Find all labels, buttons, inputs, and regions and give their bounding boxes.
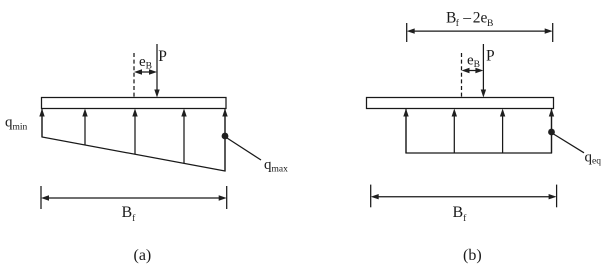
dimension arrow B_f (b) (374, 196, 554, 198)
svg-text:(a): (a) (134, 247, 152, 264)
q_max marker dot (a) (222, 133, 229, 140)
footing bar (a) (42, 98, 227, 109)
soil pressure trapezoid (a) (42, 109, 225, 172)
eccentricity arrow e_B (b) (465, 70, 481, 72)
load P arrow (b) (482, 44, 484, 90)
svg-text:qeq: qeq (585, 150, 602, 167)
svg-text:Bf: Bf (122, 204, 137, 224)
eccentricity arrow e_B (a) (137, 71, 154, 73)
svg-text:Bf–2eB: Bf–2eB (446, 10, 493, 29)
dimension ticks B_f - 2e_B (b) (406, 23, 408, 42)
dimension arrow B_f (a) (44, 197, 224, 199)
pressure arrow 1 (a) (41, 112, 43, 137)
svg-text:eB: eB (139, 54, 152, 72)
svg-text:qmin: qmin (5, 115, 28, 133)
dimension ticks B_f (a) (40, 186, 42, 209)
pressure arrow 1 (b) (405, 112, 407, 153)
svg-text:eB: eB (467, 53, 480, 71)
svg-text:P: P (158, 48, 167, 65)
svg-text:P: P (486, 48, 495, 65)
uniform pressure block (b) (406, 109, 552, 154)
q_eq marker dot (b) (548, 129, 555, 136)
svg-text:(b): (b) (463, 247, 482, 264)
dimension arrow B_f - 2e_B (b) (410, 30, 550, 32)
pressure arrow 4 (a) (183, 112, 185, 163)
centerline dashed (a) (133, 53, 135, 98)
q_eq leader line (b) (554, 134, 585, 153)
pressure arrow 5 (a) (224, 112, 226, 171)
pressure arrow 2 (a) (84, 112, 86, 145)
svg-text:Bf: Bf (453, 204, 468, 224)
pressure arrow 2 (b) (453, 112, 455, 153)
pressure arrow 3 (b) (502, 112, 504, 153)
pressure arrow 3 (a) (134, 112, 136, 154)
svg-text:qmax: qmax (264, 157, 288, 175)
q_max leader line (a) (227, 138, 261, 160)
pressure arrow 4 (b) (551, 112, 553, 153)
dimension ticks B_f (b) (370, 185, 372, 208)
load P arrow (a) (156, 44, 158, 90)
centerline dashed (b) (461, 53, 463, 98)
footing bar (b) (367, 98, 554, 109)
